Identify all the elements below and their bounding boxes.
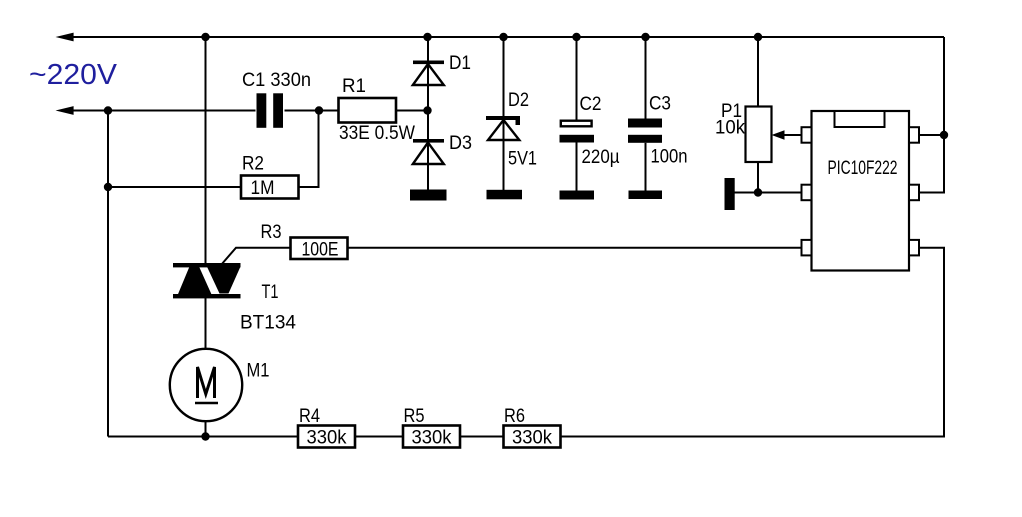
wire triac to motor bbox=[205, 298, 207, 350]
label 33E 0.5W bbox=[339, 123, 415, 144]
wire center rail x=205.5 top to triac bbox=[205, 37, 207, 263]
svg-text:5V1: 5V1 bbox=[508, 149, 537, 170]
label 330k R4 bbox=[307, 428, 347, 449]
svg-text:C2: C2 bbox=[580, 94, 602, 115]
label 10k bbox=[715, 118, 745, 139]
wire bottom rail left bbox=[108, 436, 298, 438]
svg-text:BT134: BT134 bbox=[240, 313, 296, 334]
wire C2 column top bbox=[576, 37, 578, 120]
svg-text:D3: D3 bbox=[449, 133, 472, 154]
ground bar under D2 bbox=[487, 190, 523, 200]
junction at (205.5,37) bbox=[201, 33, 209, 41]
ground bar near P1 bbox=[725, 178, 735, 210]
svg-text:10k: 10k bbox=[715, 118, 745, 139]
motor M1 bbox=[170, 349, 242, 421]
svg-text:R1: R1 bbox=[342, 76, 366, 97]
svg-text:~220V: ~220V bbox=[29, 59, 118, 91]
svg-text:C1 330n: C1 330n bbox=[242, 70, 311, 91]
wire motor to bottom rail bbox=[205, 421, 207, 437]
svg-text:R4: R4 bbox=[299, 406, 320, 427]
label R6 bbox=[504, 406, 525, 427]
wire D1 column bbox=[427, 37, 429, 191]
pin right bottom bbox=[909, 240, 919, 256]
node N (mains line 2) arrow bbox=[56, 106, 74, 115]
svg-text:R2: R2 bbox=[242, 154, 264, 175]
wire top rail y=37 bbox=[70, 36, 944, 38]
junction at (205.5,436.5) bbox=[201, 432, 209, 440]
junction at (944,135) bbox=[940, 131, 948, 139]
wire triac gate to R3 bbox=[221, 248, 291, 265]
label C1 330n bbox=[242, 70, 311, 91]
junction at (576.5,37) bbox=[572, 33, 580, 41]
diode D1 bbox=[413, 61, 444, 86]
P1 wiper arrow bbox=[772, 130, 802, 139]
label 1M bbox=[251, 178, 275, 199]
junction at (758,37) bbox=[754, 33, 762, 41]
svg-text:100E: 100E bbox=[302, 240, 339, 261]
label T1 bbox=[262, 282, 279, 303]
wire R3 to PIC pin left bottom bbox=[348, 247, 802, 249]
svg-text:330k: 330k bbox=[512, 428, 552, 449]
junction node A (319,110.5) bbox=[315, 106, 323, 114]
wire top rail corner down right side bbox=[919, 37, 944, 193]
potentiometer P1 bbox=[746, 107, 772, 163]
junction at (503.5,37) bbox=[499, 33, 507, 41]
junction at (108,187) bbox=[104, 183, 112, 191]
wire pin right top to rail bbox=[919, 134, 944, 136]
svg-text:330k: 330k bbox=[412, 428, 452, 449]
junction at (427.5,110.5) bbox=[423, 106, 431, 114]
svg-text:33E 0.5W: 33E 0.5W bbox=[339, 123, 415, 144]
label M1 bbox=[247, 361, 270, 382]
junction at (108,110.5) bbox=[104, 106, 112, 114]
svg-text:R5: R5 bbox=[404, 406, 425, 427]
label 5V1 bbox=[508, 149, 537, 170]
wire D2 column top bbox=[503, 37, 505, 191]
label 330k R6 bbox=[512, 428, 552, 449]
svg-text:D2: D2 bbox=[508, 90, 529, 111]
label D2 bbox=[508, 90, 529, 111]
pin right top bbox=[909, 127, 919, 143]
node L (mains line 1) arrow bbox=[56, 33, 74, 42]
wire C3 column top bbox=[645, 37, 647, 120]
zener diode D2 bbox=[486, 116, 520, 140]
transistor T1 triac bbox=[173, 263, 241, 298]
junction at (645.5,37) bbox=[641, 33, 649, 41]
wire R1 to D-rail bbox=[396, 110, 428, 112]
label R1 bbox=[342, 76, 366, 97]
label 330k R5 bbox=[412, 428, 452, 449]
svg-text:330k: 330k bbox=[307, 428, 347, 449]
svg-text:PIC10F222: PIC10F222 bbox=[828, 158, 898, 179]
label 220u bbox=[582, 147, 620, 168]
wire P1 bottom to ground node bbox=[757, 162, 759, 193]
svg-text:C3: C3 bbox=[649, 94, 671, 115]
resistor R2 bbox=[241, 176, 299, 199]
svg-text:R3: R3 bbox=[261, 222, 282, 243]
wire C3 to ground bbox=[645, 143, 647, 192]
wire P1 column top bbox=[757, 37, 759, 107]
diode D3 bbox=[413, 139, 444, 164]
label C3 bbox=[649, 94, 671, 115]
resistor R1 bbox=[339, 98, 397, 123]
node ~220V label bbox=[29, 59, 118, 91]
wire R2 right up to node A bbox=[299, 111, 319, 188]
resistor R6 bbox=[504, 426, 561, 448]
label C2 bbox=[580, 94, 602, 115]
resistor R3 bbox=[291, 238, 348, 260]
capacitor C1 bbox=[257, 93, 284, 128]
svg-text:1M: 1M bbox=[251, 178, 275, 199]
U1 notch bbox=[835, 111, 885, 127]
resistor R4 bbox=[298, 426, 355, 448]
pin left bottom bbox=[802, 240, 812, 256]
label R3 bbox=[261, 222, 282, 243]
wire C2 to ground bbox=[576, 143, 578, 193]
pin left middle bbox=[802, 185, 812, 201]
junction at (758,192.5) bbox=[754, 188, 762, 196]
wire R5 to R6 bbox=[460, 436, 504, 438]
wire left rail x=108 down bbox=[107, 111, 109, 437]
wire ground bar to PIC pin bbox=[735, 192, 802, 194]
label 100E bbox=[302, 240, 339, 261]
label BT134 bbox=[240, 313, 296, 334]
svg-text:R6: R6 bbox=[504, 406, 525, 427]
svg-text:100n: 100n bbox=[651, 147, 688, 168]
op-amp U1 PIC10F222 body bbox=[812, 111, 910, 271]
ground bar under D3 bbox=[410, 190, 447, 201]
svg-text:T1: T1 bbox=[262, 282, 279, 303]
label R4 bbox=[299, 406, 320, 427]
capacitor C2 electrolytic bbox=[560, 121, 595, 143]
label PIC10F222 bbox=[828, 158, 898, 179]
svg-text:D1: D1 bbox=[449, 53, 471, 74]
wire pin right bottom down to bottom rail bbox=[561, 248, 945, 437]
label R5 bbox=[404, 406, 425, 427]
ground bar under C2 bbox=[560, 191, 595, 200]
wire C1 to node A bbox=[285, 110, 339, 112]
wire R4 to R5 bbox=[355, 436, 403, 438]
ground bar under C3 bbox=[629, 191, 663, 200]
label R2 bbox=[242, 154, 264, 175]
resistor R5 bbox=[403, 426, 460, 448]
label P1 bbox=[721, 101, 742, 122]
wire R2 left to left rail bbox=[108, 186, 241, 188]
junction at (427.5,37) bbox=[423, 33, 431, 41]
svg-text:220µ: 220µ bbox=[582, 147, 620, 168]
pin left top bbox=[802, 127, 812, 143]
label 100n bbox=[651, 147, 688, 168]
capacitor C3 bbox=[628, 119, 662, 143]
label D1 bbox=[449, 53, 471, 74]
wire y=110.5 from arrow to C1 bbox=[70, 110, 256, 112]
label D3 bbox=[449, 133, 472, 154]
svg-text:M1: M1 bbox=[247, 361, 270, 382]
pin right middle bbox=[909, 185, 919, 201]
